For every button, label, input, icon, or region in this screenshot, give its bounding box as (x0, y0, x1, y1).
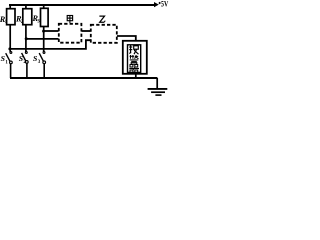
wire S1 node to box yi (10, 40, 91, 49)
switch S2 (22, 52, 29, 64)
wire alarm box to bottom rail (135, 74, 137, 78)
wire R1 bottom lead to S1 (9, 25, 11, 52)
alarm text glyph bao (129, 45, 138, 54)
wire R3 node to box jia (44, 30, 59, 32)
switch S1 (6, 52, 13, 64)
wire S1 to bottom rail (10, 64, 12, 79)
wire stub rail to R3 (43, 4, 45, 8)
switch S1 label (1, 54, 9, 66)
resistor R1 label (0, 15, 8, 25)
alarm text glyph jing (130, 55, 139, 64)
alarm text glyph qi (129, 65, 139, 73)
wire box yi to alarm box (117, 36, 136, 41)
alarm receiver box outer (123, 41, 147, 74)
resistor R2 label (15, 15, 24, 25)
resistor R3 label (32, 14, 41, 24)
wire S2 to bottom rail (26, 63, 28, 78)
switch S3 label (33, 54, 41, 65)
power +5V arrow (154, 2, 159, 7)
box jia (gate A) dashed (59, 24, 82, 43)
switch S2 label (19, 54, 27, 65)
box yi label 乙 (99, 16, 105, 22)
svg-text:5V: 5V (161, 0, 169, 9)
node junction dot R3 wire (42, 30, 45, 33)
wire bottom rail (10, 77, 157, 79)
alarm receiver box inner (128, 45, 141, 73)
ground (148, 78, 168, 95)
power +5V label (159, 0, 169, 9)
wire top +5V rail (9, 4, 154, 6)
box jia label 甲 (67, 16, 72, 24)
node junction dot R2 wire (25, 37, 28, 40)
wire box jia to box yi (82, 30, 91, 32)
resistor R3 (41, 8, 49, 26)
wire stub rail to R1 (9, 4, 11, 9)
wire S3 to bottom rail (43, 64, 45, 79)
resistor R1 (7, 9, 15, 25)
wire R3 bottom lead to S3 (43, 27, 45, 52)
switch S3 (39, 52, 45, 64)
node junction dot S1 wire (8, 47, 11, 50)
wire stub rail to R2 (25, 4, 27, 9)
wire R2 node to box jia (26, 38, 59, 40)
wire R2 bottom lead to S2 (25, 25, 27, 52)
box yi (gate B) dashed (91, 25, 117, 43)
resistor R2 (23, 9, 32, 25)
